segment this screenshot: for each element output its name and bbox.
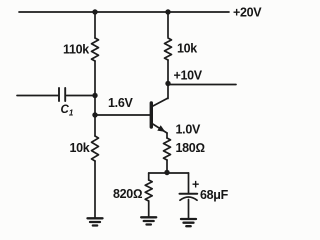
svg-text:C1: C1 <box>61 104 74 118</box>
svg-text:1.0V: 1.0V <box>176 123 201 137</box>
svg-text:820Ω: 820Ω <box>113 187 142 201</box>
svg-text:+: + <box>192 178 199 192</box>
svg-text:+10V: +10V <box>174 69 203 83</box>
svg-text:1.6V: 1.6V <box>108 96 133 110</box>
svg-text:68μF: 68μF <box>200 188 229 202</box>
svg-text:10k: 10k <box>70 141 90 155</box>
svg-text:180Ω: 180Ω <box>176 141 205 155</box>
svg-text:10k: 10k <box>177 42 197 56</box>
svg-text:110k: 110k <box>63 43 89 57</box>
svg-text:+20V: +20V <box>233 6 262 20</box>
